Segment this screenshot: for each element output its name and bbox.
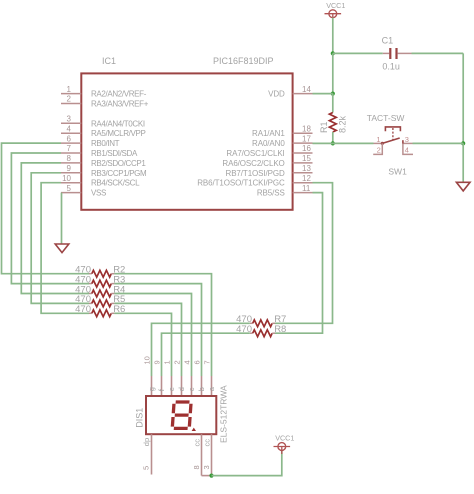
svg-text:IC1: IC1 <box>102 56 116 66</box>
DIS1 top pin 10 (g) <box>143 356 157 396</box>
svg-text:b: b <box>197 387 206 391</box>
svg-text:RB3/CCP1/PGM: RB3/CCP1/PGM <box>91 169 147 178</box>
wire RB3 to resistor row <box>31 173 89 304</box>
svg-text:8.2k: 8.2k <box>338 115 348 133</box>
IC1 left pin 3 (RA4/AN4/T0CKI) <box>61 115 145 129</box>
svg-text:2: 2 <box>377 145 381 154</box>
svg-text:13: 13 <box>302 164 311 173</box>
junction R1/RA0 <box>331 141 335 145</box>
svg-text:C1: C1 <box>382 35 394 45</box>
IC1 right pin 14 (VDD) <box>268 85 312 99</box>
wire R2 to display <box>114 274 211 376</box>
IC IC1 PIC16F819DIP body <box>81 73 292 209</box>
wire R1 to RA0 net <box>332 132 334 143</box>
svg-text:VCC1: VCC1 <box>275 434 294 443</box>
svg-text:8: 8 <box>192 465 201 469</box>
power VCC1 (bottom) <box>274 434 295 454</box>
svg-text:15: 15 <box>302 154 311 163</box>
resistor R3 470 <box>75 274 125 287</box>
svg-text:RA3/AN3/VREF+: RA3/AN3/VREF+ <box>91 100 149 109</box>
svg-text:RB5/SS: RB5/SS <box>257 189 285 198</box>
svg-text:SW1: SW1 <box>388 167 407 177</box>
switch SW1 TACT-SW <box>367 113 413 177</box>
resistor R1 8.2k <box>319 113 348 134</box>
wire VCC vertical to VDD <box>332 53 334 93</box>
DIS1 top pin 7 (a) <box>203 360 217 396</box>
DIS1 decimal point <box>192 428 196 431</box>
svg-text:1: 1 <box>163 360 172 364</box>
resistor R4 470 <box>75 284 125 297</box>
wire R7 to display <box>152 323 250 376</box>
IC1 left pin 10 (RB4/SCK/SCL) <box>61 174 140 188</box>
IC1 left pin 9 (RB3/CCP1/PGM) <box>61 164 147 178</box>
svg-text:16: 16 <box>302 144 311 153</box>
junction VDD <box>331 92 335 96</box>
IC1 right pin 18 (RA1/AN1) <box>252 124 312 138</box>
IC1 left pin 8 (RB2/SDO/CCP1) <box>61 154 146 168</box>
display DIS1 ELS-512TRWA body <box>146 396 216 434</box>
wire right rail to ground <box>462 143 464 182</box>
svg-text:17: 17 <box>302 134 311 143</box>
wire RB2 to resistor row <box>21 163 89 294</box>
svg-text:7: 7 <box>67 144 72 153</box>
IC1 right pin 13 (RB7/T1OSI/PGD) <box>226 164 313 178</box>
wire RA0 pin17 to switch <box>313 142 374 144</box>
svg-text:RB6/T1OSO/T1CKI/PGC: RB6/T1OSO/T1CKI/PGC <box>197 179 285 188</box>
wire VDD pin to rail <box>313 93 333 95</box>
DIS1 bottom pin 8 (cc) <box>192 434 212 475</box>
junction cc net <box>209 474 213 478</box>
wire R6 to display <box>114 313 171 376</box>
DIS1 bottom pin 5 (dp) <box>141 434 151 474</box>
IC1 left pin 6 (RB0/INT) <box>61 134 120 148</box>
svg-text:RB4/SCK/SCL: RB4/SCK/SCL <box>91 179 140 188</box>
wire VSS to ground <box>61 193 63 244</box>
svg-text:6: 6 <box>67 134 72 143</box>
svg-text:2: 2 <box>67 95 72 104</box>
svg-text:18: 18 <box>302 124 311 133</box>
wire right rail vertical <box>462 53 464 143</box>
svg-text:VDD: VDD <box>268 90 285 99</box>
svg-text:RB1/SDI/SDA: RB1/SDI/SDA <box>91 149 138 158</box>
wire top rail to C1 <box>333 52 383 54</box>
svg-text:g: g <box>147 387 156 391</box>
svg-text:9: 9 <box>67 164 72 173</box>
svg-text:PIC16F819DIP: PIC16F819DIP <box>213 56 274 66</box>
IC1 right pin 11 (RB5/SS) <box>257 184 313 198</box>
svg-text:3: 3 <box>67 115 72 124</box>
resistor R2 470 <box>75 265 125 278</box>
IC1 right pin 15 (RA6/OSC2/CLKO) <box>222 154 312 168</box>
wire RB0 to resistor row <box>2 143 90 274</box>
wire RB1 to resistor row <box>11 153 89 284</box>
DIS1 top pin 2 (d) <box>173 360 187 396</box>
svg-text:R8: R8 <box>274 324 286 335</box>
wire R4 to display <box>114 294 191 377</box>
svg-text:9: 9 <box>153 360 162 364</box>
svg-text:VSS: VSS <box>91 189 106 198</box>
svg-text:3: 3 <box>405 135 409 144</box>
resistor R8 470 <box>236 324 286 337</box>
svg-text:8: 8 <box>67 154 72 163</box>
wire RB6 pin12 route <box>275 183 333 324</box>
svg-text:d: d <box>177 387 186 391</box>
DIS1 top pin 6 (b) <box>193 360 207 396</box>
svg-text:cc: cc <box>202 439 211 447</box>
svg-text:14: 14 <box>302 85 311 94</box>
wire VCC1 to top rail <box>332 18 334 54</box>
DIS1 top pin 9 (f) <box>153 360 167 396</box>
svg-text:DIS1: DIS1 <box>135 408 145 428</box>
DIS1 digit 8 <box>172 402 191 428</box>
wire C1 to right rail <box>412 52 464 54</box>
svg-text:RA7/OSC1/CLKI: RA7/OSC1/CLKI <box>226 149 284 158</box>
svg-text:2: 2 <box>173 360 182 364</box>
svg-text:7: 7 <box>203 360 212 364</box>
IC1 left pin 5 (VSS) <box>61 184 106 198</box>
svg-text:4: 4 <box>67 124 72 133</box>
IC1 left pin 1 (RA2/AN2/VREF-) <box>61 85 147 99</box>
IC1 left pin 7 (RB1/SDI/SDA) <box>61 144 138 158</box>
IC1 right pin 12 (RB6/T1OSO/T1CKI/PGC) <box>197 174 312 188</box>
svg-text:12: 12 <box>302 174 311 183</box>
svg-text:4: 4 <box>405 145 409 154</box>
wire R8 to display <box>162 333 250 376</box>
svg-text:ELS-512TRWA: ELS-512TRWA <box>219 385 229 443</box>
svg-text:VCC1: VCC1 <box>326 1 345 10</box>
svg-text:10: 10 <box>143 356 152 364</box>
IC1 right pin 16 (RA7/OSC1/CLKI) <box>226 144 312 158</box>
capacitor C1 0.1u <box>382 35 412 71</box>
power VCC1 (top) <box>325 1 346 21</box>
svg-text:RB7/T1OSI/PGD: RB7/T1OSI/PGD <box>226 169 285 178</box>
wire VDD junction to R1 <box>332 94 334 113</box>
svg-text:e: e <box>167 387 176 391</box>
svg-text:4: 4 <box>183 360 192 364</box>
svg-text:11: 11 <box>302 184 311 193</box>
IC1 right pin 17 (RA0/AN0) <box>252 134 312 148</box>
svg-text:RA2/AN2/VREF-: RA2/AN2/VREF- <box>91 90 147 99</box>
svg-text:1: 1 <box>376 135 380 144</box>
resistor R5 470 <box>75 294 125 307</box>
svg-text:RA5/MCLR/VPP: RA5/MCLR/VPP <box>91 129 145 138</box>
resistor R6 470 <box>75 304 125 317</box>
resistor R7 470 <box>236 314 286 327</box>
junction right rail <box>461 141 465 145</box>
DIS1 top pin 4 (c) <box>183 360 197 396</box>
DIS1 top pin 1 (e) <box>163 360 177 396</box>
svg-text:R1: R1 <box>319 121 329 133</box>
DIS1 bottom pin 3 (cc) <box>202 434 212 475</box>
IC1 left pin 4 (RA5/MCLR/VPP) <box>61 124 145 138</box>
svg-text:470: 470 <box>75 304 91 315</box>
svg-text:dp: dp <box>142 438 151 446</box>
wire R5 to display <box>114 303 181 376</box>
wire RB4 to resistor row <box>41 183 89 314</box>
svg-text:RA1/AN1: RA1/AN1 <box>252 129 285 138</box>
svg-text:3: 3 <box>202 465 211 469</box>
wire switch to right rail <box>413 142 464 144</box>
svg-text:TACT-SW: TACT-SW <box>367 113 405 123</box>
svg-text:RB2/SDO/CCP1: RB2/SDO/CCP1 <box>91 159 146 168</box>
IC1 left pin 2 (RA3/AN3/VREF+) <box>61 95 149 109</box>
wire R3 to display <box>114 284 201 376</box>
svg-text:RA6/OSC2/CLKO: RA6/OSC2/CLKO <box>222 159 284 168</box>
svg-text:5: 5 <box>141 466 150 470</box>
svg-text:5: 5 <box>67 184 72 193</box>
wire cc to VCC1 (bottom) <box>212 450 282 476</box>
junction top rail <box>331 51 335 55</box>
svg-text:RA4/AN4/T0CKI: RA4/AN4/T0CKI <box>91 119 145 128</box>
svg-text:RB0/INT: RB0/INT <box>91 139 120 148</box>
ground (VSS) <box>55 244 69 253</box>
svg-text:10: 10 <box>62 174 71 183</box>
svg-text:cc: cc <box>192 439 201 447</box>
ground (right) <box>456 182 470 191</box>
wire RB5 pin11 route <box>275 193 323 334</box>
svg-text:1: 1 <box>67 85 72 94</box>
svg-text:6: 6 <box>193 360 202 364</box>
svg-text:c: c <box>187 387 196 391</box>
svg-text:RA0/AN0: RA0/AN0 <box>252 139 285 148</box>
svg-text:0.1u: 0.1u <box>382 61 400 71</box>
